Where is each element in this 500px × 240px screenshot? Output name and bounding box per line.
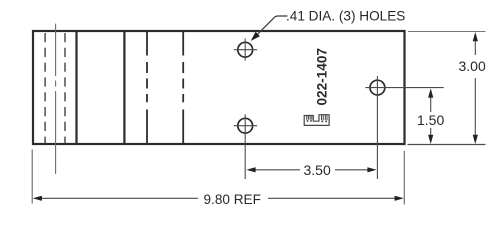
svg-text:.41 DIA. (3) HOLES: .41 DIA. (3) HOLES [286,8,405,23]
svg-text:3.50: 3.50 [304,162,331,178]
svg-text:9.80 REF: 9.80 REF [204,192,261,207]
svg-text:022-1407: 022-1407 [314,48,329,105]
svg-text:3.00: 3.00 [459,58,486,74]
svg-text:1.50: 1.50 [417,112,444,128]
